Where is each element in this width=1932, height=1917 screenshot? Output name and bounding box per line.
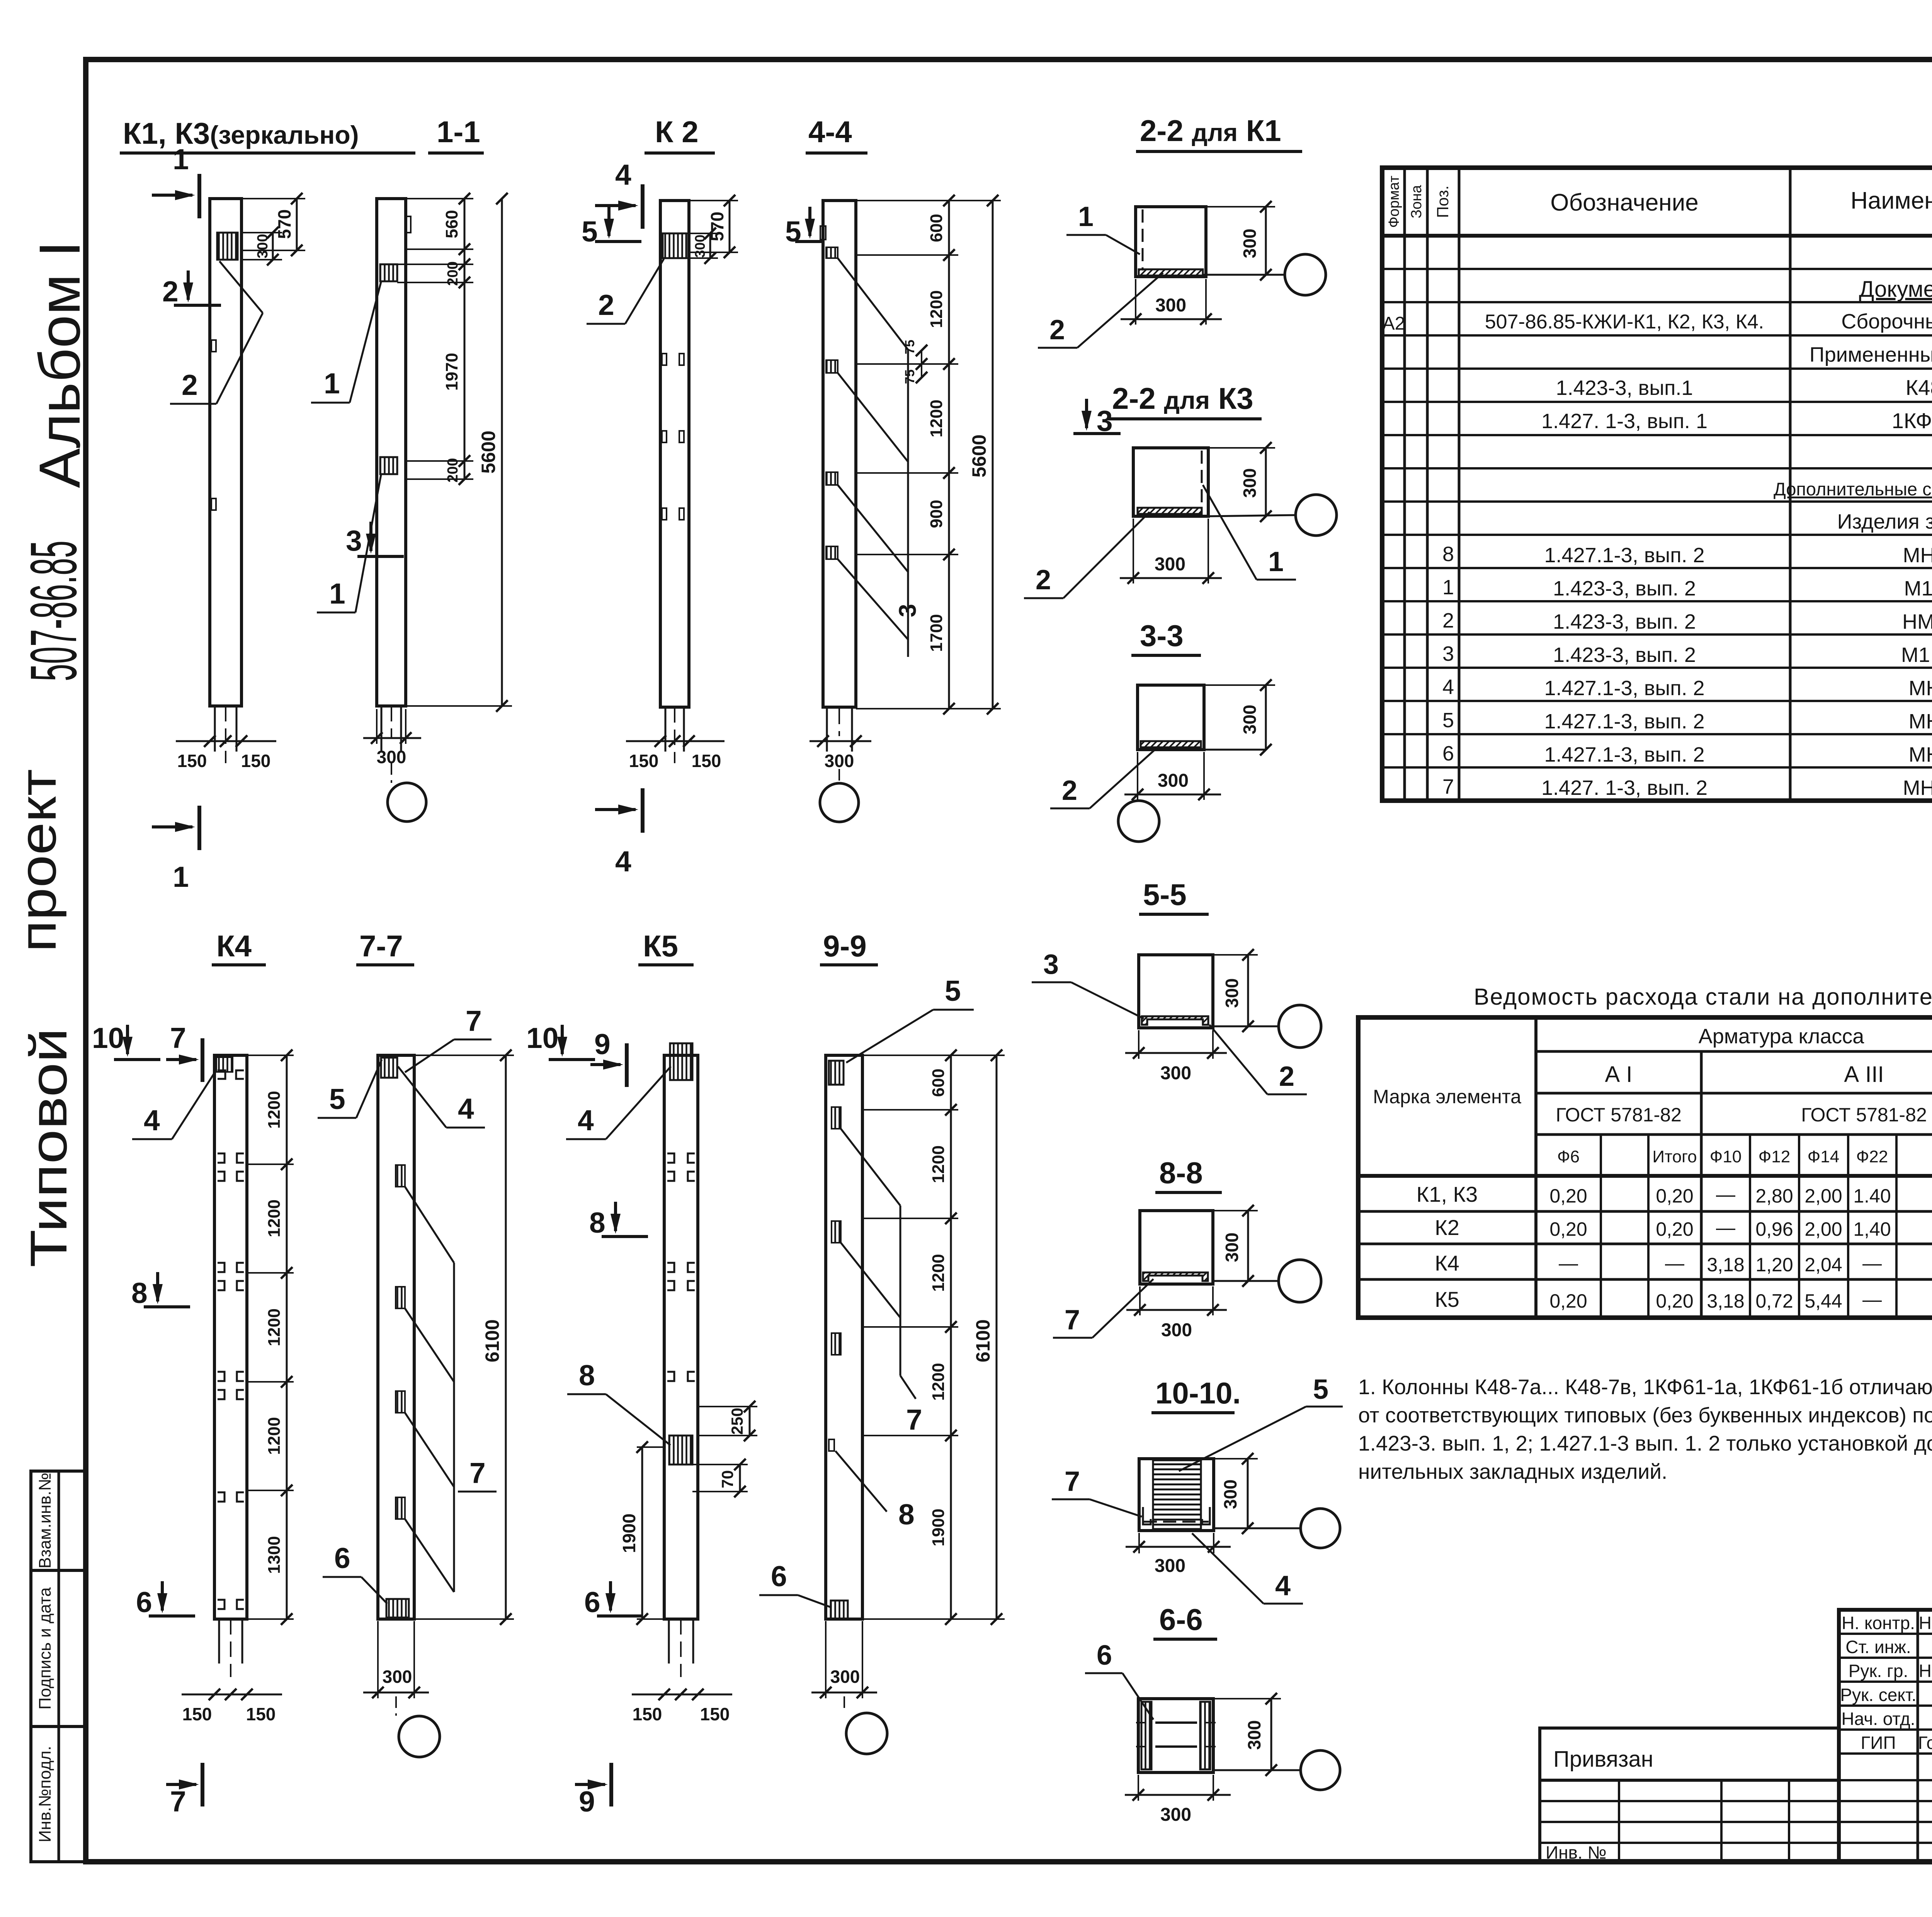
svg-text:3: 3 — [895, 604, 921, 617]
svg-text:1200: 1200 — [265, 1199, 284, 1237]
svg-text:Типовой: Типовой — [20, 1028, 78, 1267]
svg-text:0,20: 0,20 — [1656, 1185, 1693, 1207]
svg-text:150: 150 — [692, 751, 721, 771]
svg-text:НМ1-1: НМ1-1 — [1902, 610, 1932, 633]
svg-text:1: 1 — [173, 143, 189, 175]
svg-text:0,20: 0,20 — [1656, 1290, 1693, 1312]
svg-text:5: 5 — [329, 1083, 345, 1115]
svg-text:А2: А2 — [1383, 313, 1405, 334]
svg-text:1200: 1200 — [265, 1308, 284, 1346]
svg-text:300: 300 — [1158, 771, 1189, 791]
svg-text:6: 6 — [1097, 1640, 1112, 1671]
svg-text:—: — — [1559, 1252, 1578, 1274]
svg-text:5,44: 5,44 — [1804, 1290, 1842, 1312]
svg-text:5-5: 5-5 — [1143, 878, 1187, 912]
svg-text:507-86.85: 507-86.85 — [17, 541, 90, 681]
svg-text:2,04: 2,04 — [1804, 1254, 1842, 1276]
svg-text:К4: К4 — [1435, 1251, 1459, 1275]
svg-text:Ф22: Ф22 — [1856, 1147, 1888, 1166]
svg-text:Поз.: Поз. — [1434, 185, 1452, 218]
svg-text:—: — — [1716, 1217, 1735, 1238]
svg-text:0,96: 0,96 — [1755, 1218, 1793, 1240]
svg-text:Подпись и дата: Подпись и дата — [36, 1587, 54, 1709]
svg-text:Н. контр.: Н. контр. — [1842, 1613, 1915, 1633]
svg-text:300: 300 — [1240, 229, 1260, 259]
svg-text:Рук. гр.: Рук. гр. — [1849, 1661, 1908, 1681]
svg-text:К1, К3(зеркально): К1, К3(зеркально) — [123, 116, 359, 150]
svg-text:Ф6: Ф6 — [1557, 1147, 1580, 1166]
svg-text:8: 8 — [589, 1206, 605, 1239]
svg-text:0,20: 0,20 — [1549, 1185, 1587, 1207]
svg-text:7: 7 — [1065, 1466, 1080, 1497]
svg-text:5: 5 — [1442, 709, 1454, 732]
svg-text:300: 300 — [1244, 1720, 1264, 1750]
svg-text:0,20: 0,20 — [1549, 1218, 1587, 1240]
svg-text:ГИП: ГИП — [1861, 1733, 1896, 1753]
svg-text:Изделия закладные: Изделия закладные — [1837, 510, 1932, 533]
svg-text:Зона: Зона — [1408, 185, 1425, 218]
svg-text:9: 9 — [594, 1028, 611, 1060]
svg-text:300: 300 — [1160, 1805, 1191, 1825]
svg-text:2: 2 — [1062, 775, 1077, 806]
svg-text:проект: проект — [9, 769, 67, 952]
svg-text:5600: 5600 — [478, 430, 499, 473]
svg-text:К5: К5 — [643, 929, 678, 963]
svg-text:Инв.№подл.: Инв.№подл. — [36, 1746, 54, 1842]
svg-text:6100: 6100 — [481, 1319, 503, 1362]
svg-text:4: 4 — [1442, 675, 1454, 699]
svg-text:—: — — [1665, 1252, 1684, 1274]
svg-text:2,00: 2,00 — [1804, 1218, 1842, 1240]
svg-text:МН 7: МН 7 — [1908, 743, 1932, 766]
svg-text:1.427. 1-3, вып. 2: 1.427. 1-3, вып. 2 — [1541, 776, 1708, 799]
svg-text:300: 300 — [1155, 554, 1185, 575]
svg-text:5: 5 — [1313, 1374, 1328, 1405]
svg-text:Дополнительные сборочные едини: Дополнительные сборочные единицы — [1774, 479, 1932, 499]
svg-text:Ноговицына: Ноговицына — [1919, 1613, 1932, 1633]
svg-text:7: 7 — [170, 1022, 186, 1054]
svg-text:МН 21: МН 21 — [1903, 544, 1932, 567]
svg-text:1.427. 1-3, вып. 1: 1.427. 1-3, вып. 1 — [1541, 410, 1708, 433]
svg-text:300: 300 — [692, 235, 708, 258]
svg-text:Взам.инв.№: Взам.инв.№ — [36, 1473, 54, 1568]
svg-text:Ведомость расхода стали: Ведомость расхода стали на дополнительны… — [1474, 984, 1932, 1010]
svg-text:300: 300 — [830, 1667, 860, 1687]
svg-text:К 2: К 2 — [655, 115, 699, 149]
svg-text:1: 1 — [1268, 546, 1284, 577]
svg-text:200: 200 — [445, 261, 461, 286]
svg-text:4: 4 — [458, 1092, 474, 1125]
svg-text:4: 4 — [144, 1104, 160, 1136]
svg-text:1: 1 — [173, 861, 189, 893]
svg-text:1: 1 — [1078, 201, 1094, 232]
svg-text:нительных закладных издели: нительных закладных изделий. — [1358, 1459, 1667, 1483]
svg-text:2: 2 — [1036, 565, 1051, 595]
svg-text:Примененные документы: Примененные документы — [1810, 343, 1932, 366]
svg-text:М1 -13: М1 -13 — [1901, 643, 1932, 667]
svg-text:10: 10 — [92, 1022, 124, 1054]
svg-text:2,00: 2,00 — [1804, 1185, 1842, 1207]
svg-text:2,80: 2,80 — [1755, 1185, 1793, 1207]
svg-text:507-86.85-КЖИ-К1, К2, К3, К4.: 507-86.85-КЖИ-К1, К2, К3, К4. — [1485, 311, 1764, 333]
svg-text:3: 3 — [346, 524, 362, 557]
svg-text:150: 150 — [182, 1704, 212, 1724]
svg-text:6: 6 — [1442, 742, 1454, 765]
svg-text:2: 2 — [162, 275, 179, 308]
svg-text:560: 560 — [442, 210, 461, 238]
svg-text:1,40: 1,40 — [1853, 1218, 1891, 1240]
svg-text:Ст. инж.: Ст. инж. — [1845, 1637, 1911, 1657]
svg-text:—: — — [1862, 1289, 1882, 1310]
svg-text:1200: 1200 — [929, 1363, 948, 1401]
svg-text:7: 7 — [469, 1457, 486, 1489]
svg-text:Ф12: Ф12 — [1759, 1147, 1790, 1166]
svg-text:1.423-3, вып. 2: 1.423-3, вып. 2 — [1553, 610, 1696, 633]
svg-text:75: 75 — [903, 369, 917, 384]
svg-text:300: 300 — [1240, 468, 1260, 498]
svg-text:300: 300 — [1161, 1320, 1192, 1340]
svg-text:1: 1 — [1442, 576, 1454, 599]
svg-text:10: 10 — [526, 1022, 558, 1054]
svg-text:Обозначение: Обозначение — [1550, 189, 1698, 216]
svg-text:300: 300 — [1220, 1480, 1240, 1509]
svg-text:2: 2 — [1049, 315, 1065, 345]
svg-text:300: 300 — [1160, 1063, 1191, 1084]
svg-text:1200: 1200 — [927, 290, 946, 328]
svg-text:250: 250 — [728, 1408, 746, 1435]
svg-text:3: 3 — [1442, 642, 1454, 665]
svg-text:2: 2 — [182, 369, 198, 401]
svg-text:10-10.: 10-10. — [1155, 1376, 1241, 1410]
svg-text:Ноговицына: Ноговицына — [1919, 1661, 1932, 1681]
svg-text:150: 150 — [241, 751, 271, 771]
svg-text:7-7: 7-7 — [359, 929, 403, 963]
svg-text:Сборочный чертеж: Сборочный чертеж — [1841, 310, 1932, 333]
svg-text:1.427.1-3, вып. 2: 1.427.1-3, вып. 2 — [1544, 544, 1705, 567]
svg-text:—: — — [1716, 1184, 1735, 1205]
svg-text:7: 7 — [466, 1005, 482, 1037]
svg-text:А I: А I — [1605, 1062, 1633, 1087]
svg-text:570: 570 — [274, 209, 294, 239]
svg-text:1-1: 1-1 — [437, 115, 480, 149]
svg-text:1970: 1970 — [442, 353, 461, 391]
svg-text:1: 1 — [329, 577, 345, 610]
svg-text:МН 1: МН 1 — [1908, 677, 1932, 700]
svg-text:75: 75 — [903, 340, 917, 354]
svg-text:300: 300 — [1222, 1233, 1242, 1262]
svg-text:300: 300 — [825, 751, 854, 771]
svg-text:К2: К2 — [1435, 1215, 1459, 1240]
svg-text:1900: 1900 — [929, 1509, 948, 1546]
svg-text:1.423-3, вып.1: 1.423-3, вып.1 — [1556, 376, 1693, 400]
svg-text:1: 1 — [324, 367, 340, 400]
svg-text:8-8: 8-8 — [1159, 1156, 1203, 1190]
svg-text:150: 150 — [246, 1704, 276, 1724]
svg-text:МН 28: МН 28 — [1903, 776, 1932, 799]
svg-text:6: 6 — [584, 1586, 600, 1618]
svg-text:8: 8 — [579, 1359, 595, 1391]
svg-text:200: 200 — [445, 458, 461, 482]
svg-text:8: 8 — [1442, 543, 1454, 566]
svg-text:1.427.1-3, вып. 2: 1.427.1-3, вып. 2 — [1544, 710, 1705, 733]
svg-text:Наименование: Наименование — [1850, 187, 1932, 214]
svg-text:150: 150 — [629, 751, 659, 771]
svg-text:1. Колонны К48-7а... К48-7в,: 1. Колонны К48-7а... К48-7в, 1КФ61-1а, 1… — [1358, 1375, 1932, 1399]
svg-text:300: 300 — [1155, 295, 1186, 316]
svg-text:1КФ61-1: 1КФ61-1 — [1892, 408, 1932, 433]
svg-text:4: 4 — [1275, 1570, 1291, 1601]
svg-text:К48-7: К48-7 — [1906, 375, 1932, 400]
svg-text:4-4: 4-4 — [808, 115, 852, 149]
svg-text:6100: 6100 — [972, 1319, 994, 1362]
svg-text:900: 900 — [927, 500, 946, 528]
svg-text:2: 2 — [598, 289, 614, 321]
svg-text:Инв. №: Инв. № — [1546, 1842, 1607, 1863]
svg-text:2-2 для К3: 2-2 для К3 — [1112, 381, 1253, 415]
svg-text:600: 600 — [929, 1068, 948, 1097]
svg-text:2: 2 — [1279, 1061, 1294, 1092]
svg-text:1200: 1200 — [265, 1091, 284, 1129]
svg-text:6-6: 6-6 — [1159, 1602, 1203, 1636]
svg-text:5600: 5600 — [968, 434, 990, 477]
svg-text:1.423-3. вып. 1, 2; 1.427.1: 1.423-3. вып. 1, 2; 1.427.1-3 вып. 1. 2 … — [1358, 1431, 1932, 1455]
svg-text:1.427.1-3, вып. 2: 1.427.1-3, вып. 2 — [1544, 743, 1705, 766]
svg-text:0,20: 0,20 — [1549, 1290, 1587, 1312]
svg-text:1700: 1700 — [927, 614, 946, 652]
svg-text:1.423-3, вып. 2: 1.423-3, вып. 2 — [1553, 643, 1696, 667]
svg-text:8: 8 — [131, 1277, 148, 1309]
svg-text:150: 150 — [177, 751, 207, 771]
svg-text:Документация: Документация — [1859, 277, 1932, 302]
svg-text:1200: 1200 — [929, 1254, 948, 1292]
svg-text:ГОСТ 5781-82: ГОСТ 5781-82 — [1556, 1104, 1682, 1126]
svg-text:70: 70 — [718, 1470, 736, 1488]
svg-text:7: 7 — [906, 1403, 922, 1436]
svg-text:7: 7 — [170, 1785, 186, 1818]
svg-text:5: 5 — [945, 975, 961, 1007]
svg-text:4: 4 — [615, 158, 631, 191]
svg-text:ГОСТ 5781-82: ГОСТ 5781-82 — [1801, 1104, 1927, 1126]
svg-text:300: 300 — [1240, 705, 1260, 735]
svg-text:8: 8 — [898, 1498, 915, 1531]
svg-text:от соответствующих типовых (бе: от соответствующих типовых (без буквенны… — [1358, 1403, 1932, 1427]
svg-text:МН 2: МН 2 — [1908, 710, 1932, 733]
svg-text:1.40: 1.40 — [1853, 1185, 1891, 1207]
svg-text:М1-12: М1-12 — [1904, 577, 1932, 600]
svg-text:Марка элемента: Марка элемента — [1373, 1086, 1521, 1107]
svg-text:3,18: 3,18 — [1707, 1290, 1744, 1312]
svg-text:Итого: Итого — [1652, 1147, 1697, 1166]
svg-text:0,20: 0,20 — [1656, 1218, 1693, 1240]
svg-text:6: 6 — [771, 1560, 787, 1592]
svg-text:6: 6 — [334, 1542, 350, 1574]
svg-text:Ф10: Ф10 — [1710, 1147, 1742, 1166]
svg-text:2-2 для К1: 2-2 для К1 — [1140, 114, 1281, 148]
svg-text:4: 4 — [615, 845, 631, 878]
svg-text:3: 3 — [1043, 949, 1059, 980]
svg-text:Альбом I: Альбом I — [27, 241, 92, 488]
svg-text:3-3: 3-3 — [1140, 619, 1184, 653]
svg-text:Ф14: Ф14 — [1808, 1147, 1839, 1166]
svg-text:Нач. отд.: Нач. отд. — [1841, 1709, 1915, 1729]
svg-text:300: 300 — [1222, 978, 1242, 1008]
svg-text:7: 7 — [1442, 775, 1454, 798]
svg-text:Гороховский: Гороховский — [1918, 1733, 1932, 1753]
svg-text:Рук. сект.: Рук. сект. — [1840, 1685, 1916, 1705]
svg-text:2: 2 — [1442, 609, 1454, 632]
svg-text:150: 150 — [700, 1704, 730, 1724]
svg-text:1.427.1-3, вып. 2: 1.427.1-3, вып. 2 — [1544, 677, 1705, 700]
svg-text:0,72: 0,72 — [1755, 1290, 1793, 1312]
svg-text:А III: А III — [1844, 1062, 1884, 1087]
svg-text:К5: К5 — [1435, 1287, 1459, 1311]
svg-text:К1, К3: К1, К3 — [1417, 1182, 1478, 1206]
svg-text:4: 4 — [578, 1104, 594, 1136]
svg-text:К4: К4 — [216, 929, 252, 963]
svg-text:300: 300 — [1155, 1556, 1185, 1576]
svg-text:600: 600 — [927, 214, 946, 242]
svg-text:Формат: Формат — [1386, 176, 1402, 228]
svg-text:300: 300 — [383, 1667, 412, 1687]
svg-text:3,18: 3,18 — [1707, 1254, 1744, 1276]
svg-text:6: 6 — [136, 1586, 152, 1618]
svg-text:150: 150 — [633, 1704, 662, 1724]
svg-text:1200: 1200 — [265, 1417, 284, 1455]
svg-text:9: 9 — [579, 1785, 595, 1818]
svg-text:Арматура класса: Арматура класса — [1699, 1025, 1865, 1048]
svg-text:1200: 1200 — [927, 400, 946, 437]
svg-text:1,20: 1,20 — [1755, 1254, 1793, 1276]
svg-text:1.423-3, вып. 2: 1.423-3, вып. 2 — [1553, 577, 1696, 600]
svg-text:300: 300 — [255, 234, 271, 258]
svg-text:1300: 1300 — [265, 1536, 284, 1574]
svg-text:—: — — [1862, 1252, 1882, 1274]
svg-text:9-9: 9-9 — [823, 929, 867, 963]
svg-text:1200: 1200 — [929, 1145, 948, 1183]
svg-text:7: 7 — [1065, 1305, 1080, 1335]
svg-text:Привязан: Привязан — [1553, 1747, 1653, 1772]
svg-text:1900: 1900 — [619, 1514, 639, 1553]
